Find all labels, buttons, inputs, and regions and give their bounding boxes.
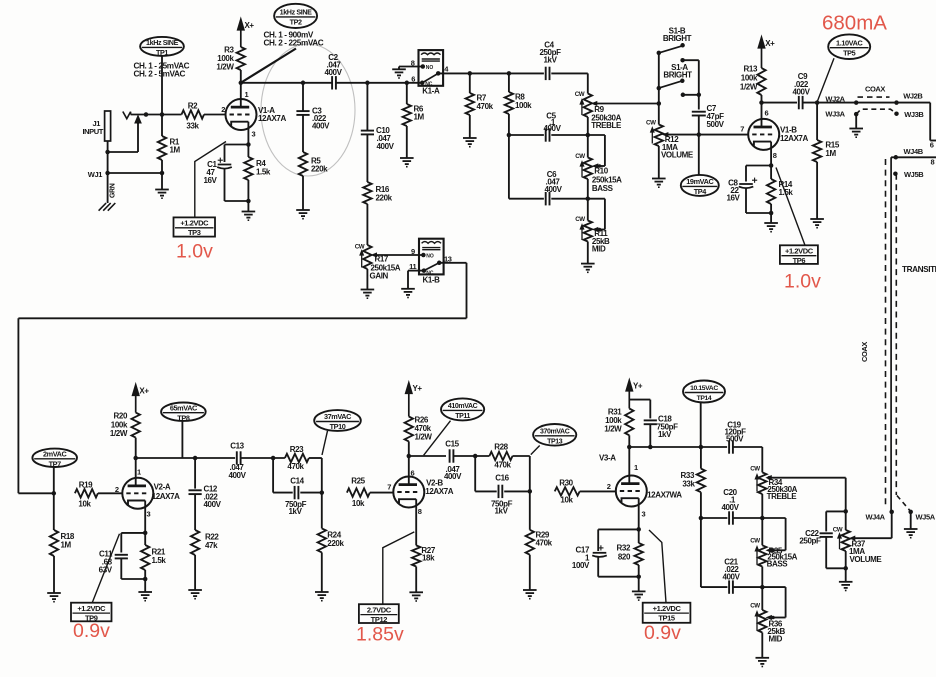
svg-text:220k: 220k: [311, 165, 328, 174]
svg-text:400V: 400V: [543, 124, 561, 133]
svg-text:R2: R2: [188, 102, 198, 111]
svg-text:NO: NO: [426, 254, 434, 260]
wire R9 bottom: [587, 117, 589, 135]
svg-text:MID: MID: [769, 634, 783, 643]
wire R10 top rail: [588, 134, 605, 136]
wire K1-B pin13 long loop: [439, 262, 466, 264]
resistor R5: [299, 152, 307, 176]
wire C20 to R34 bottom: [733, 517, 762, 519]
capacitor C5: [509, 134, 544, 136]
wire R17 wiper to K1-B: [375, 254, 424, 256]
potentiometer R35 BASS: [761, 518, 763, 545]
node WJ1 left: [105, 171, 110, 176]
wire V2-A plate lead: [135, 458, 137, 486]
testpoint TP3: [174, 217, 216, 236]
wire R18 to ground: [53, 556, 55, 593]
capacitor C20: [728, 511, 730, 524]
resistor R2: [182, 110, 205, 118]
wire C8 bottom: [745, 188, 747, 213]
svg-text:CW: CW: [750, 465, 760, 472]
node V1-A cathode: [246, 142, 251, 147]
wire TP14 pointer: [700, 403, 702, 447]
wire R10 wiper: [597, 165, 605, 167]
wire coax shield dashed mid: [856, 109, 896, 114]
wire R11 wiper: [597, 229, 605, 231]
node on WJ4B wire: [894, 155, 899, 160]
svg-text:R25: R25: [351, 477, 365, 486]
svg-text:1: 1: [634, 463, 638, 472]
wire to chassis: [107, 173, 109, 203]
svg-text:2: 2: [607, 482, 611, 491]
node: [143, 577, 148, 582]
wire TP9 pointer: [92, 534, 119, 603]
svg-text:3: 3: [252, 130, 256, 139]
resistor R18: [53, 493, 55, 530]
svg-text:WJ5B: WJ5B: [904, 170, 924, 179]
wire C6 to R10 bottom: [551, 198, 588, 200]
wire: [161, 160, 163, 190]
svg-text:WJ4B: WJ4B: [904, 147, 924, 156]
wire S1-A top to C7 rail: [683, 59, 699, 61]
wire R37 wiper: [854, 537, 892, 539]
node K1-B common: [437, 261, 442, 266]
node: [769, 211, 774, 216]
svg-text:1/2W: 1/2W: [740, 83, 758, 92]
wire R12 to ground: [658, 146, 660, 179]
svg-text:1: 1: [137, 468, 141, 477]
svg-text:1M: 1M: [825, 149, 836, 158]
node R8 tap: [507, 71, 512, 76]
resistor R33: [700, 447, 702, 469]
svg-text:47k: 47k: [205, 541, 218, 550]
svg-text:400V: 400V: [444, 472, 462, 481]
wire C15 to node: [453, 455, 489, 457]
wire TP13 pointer: [531, 446, 540, 455]
wire plate bus V2-B: [409, 455, 446, 457]
wire R36 top rail: [762, 586, 785, 588]
resistor R20: [132, 413, 140, 438]
capacitor C4: [545, 67, 547, 80]
wire R11 to ground: [587, 242, 589, 264]
svg-text:X+: X+: [245, 21, 255, 30]
arrow shorting contact: [135, 116, 141, 123]
wire C9 to WJ2A: [803, 102, 857, 104]
svg-text:BASS: BASS: [767, 559, 789, 568]
svg-text:250k15A: 250k15A: [592, 175, 622, 184]
svg-text:R13: R13: [744, 65, 758, 74]
testpoint TP5: [828, 34, 870, 59]
resistor R13: [757, 68, 765, 95]
wire C3 to R5: [302, 115, 304, 152]
capacitor C12: [189, 489, 202, 491]
node WJ5A: [908, 510, 913, 515]
testpoint TP12: [359, 604, 399, 623]
wire C13 to node: [241, 457, 285, 459]
svg-text:TP6: TP6: [793, 256, 806, 265]
node R15 tap: [815, 100, 820, 105]
wire R24 to ground: [321, 552, 323, 592]
node WJ3B: [894, 111, 899, 116]
svg-text:CW: CW: [575, 91, 585, 98]
node: [246, 199, 251, 204]
node C14/R23 left: [271, 456, 276, 461]
svg-text:CW: CW: [646, 119, 656, 126]
svg-text:NC: NC: [425, 81, 433, 87]
wire: [108, 151, 138, 153]
triode V1-A: [226, 99, 257, 130]
capacitor C17: [593, 552, 607, 554]
svg-text:V3-A: V3-A: [599, 453, 616, 462]
svg-text:Y+: Y+: [633, 382, 643, 391]
potentiometer R9 TREBLE: [584, 94, 592, 118]
wire C19 to R34: [733, 446, 762, 448]
svg-text:TP10: TP10: [330, 422, 346, 431]
svg-text:1kV: 1kV: [288, 507, 302, 516]
wire TP5 pointer: [818, 58, 835, 101]
testpoint TP15: [643, 603, 691, 623]
node S1-A top contact: [680, 58, 685, 63]
ground R21: [138, 591, 152, 593]
svg-text:VOLUME: VOLUME: [661, 150, 694, 159]
potentiometer R11 MID: [587, 199, 589, 221]
wire C12 branch: [194, 458, 196, 489]
wire V3-A cathode lead: [638, 498, 640, 529]
svg-text:TP2: TP2: [290, 18, 302, 27]
testpoint TP1: [140, 37, 184, 56]
potentiometer R17 GAIN: [363, 245, 371, 269]
power X+ V1-B: [758, 37, 765, 49]
resistor R28: [489, 452, 512, 460]
svg-text:C16: C16: [495, 473, 509, 482]
wire TP2 pointer: [242, 49, 296, 83]
capacitor C13: [236, 451, 238, 464]
svg-text:6: 6: [930, 141, 934, 150]
svg-text:TP7: TP7: [49, 460, 62, 469]
jack tip contact: [123, 112, 131, 119]
wire TP8 pointer: [181, 421, 183, 458]
svg-text:1/2W: 1/2W: [415, 432, 433, 441]
svg-text:VOLUME: VOLUME: [850, 555, 883, 564]
wire coax shield dashed top: [858, 96, 890, 98]
node WJ1 right: [160, 171, 165, 176]
svg-text:65mVAC: 65mVAC: [170, 403, 198, 412]
node C7 rail junction: [697, 93, 702, 98]
wire V1-B plate lead: [761, 103, 763, 128]
node V1-A plate: [239, 81, 244, 86]
node K1-B NC contact: [422, 268, 427, 273]
wire C16 to node: [504, 490, 530, 492]
wire R4 bottom: [247, 180, 249, 212]
svg-text:370mVAC: 370mVAC: [540, 428, 570, 435]
wire R26 to plate node: [408, 441, 410, 456]
wire R8 to C5 node: [508, 114, 510, 135]
wire S1-A lower to rail: [683, 94, 699, 96]
wire C4 to R9: [551, 72, 588, 74]
svg-text:MID: MID: [592, 245, 606, 254]
node WJ5B: [893, 171, 898, 176]
wire V2-B plate lead: [408, 456, 410, 485]
svg-text:680mA: 680mA: [822, 12, 887, 35]
triode V2-A: [122, 478, 153, 509]
wire R7 to ground: [469, 115, 471, 138]
wire R33 to C20 row: [700, 492, 702, 518]
svg-text:400V: 400V: [204, 500, 222, 509]
capacitor C9: [798, 96, 800, 109]
node WJ2A: [854, 100, 859, 105]
wire R31 to plate node: [628, 435, 630, 447]
wire plate bus V3-A: [629, 446, 727, 448]
resistor R19: [75, 489, 98, 497]
node K1-A NC contact: [420, 81, 425, 86]
wire R34 wiper out: [770, 477, 846, 479]
resistor R7: [469, 73, 471, 93]
svg-text:3: 3: [642, 510, 646, 519]
resistor R24: [321, 493, 323, 529]
svg-text:1kV: 1kV: [658, 430, 672, 439]
svg-text:BRIGHT: BRIGHT: [663, 71, 692, 80]
wire cathode to C8: [746, 165, 771, 167]
svg-text:1.0v: 1.0v: [784, 271, 821, 293]
wire to ground: [845, 568, 847, 582]
wire TP12 pointer: [383, 532, 415, 604]
wire cathode to C1: [225, 144, 249, 146]
svg-text:10k: 10k: [560, 495, 573, 504]
wire V1-B cathode lead: [770, 142, 772, 166]
resistor R25: [347, 488, 370, 496]
testpoint TP14: [683, 381, 725, 403]
ground R17: [361, 289, 375, 291]
svg-text:220k: 220k: [376, 194, 393, 203]
node R7 tap: [468, 71, 473, 76]
node R9/C5/R10: [586, 133, 591, 138]
svg-text:+1.2VDC: +1.2VDC: [785, 247, 814, 256]
wire WJ3A ground stem: [855, 114, 857, 128]
capacitor C22: [820, 532, 833, 534]
node WJ2B: [894, 100, 899, 105]
resistor R14: [770, 166, 772, 180]
decorative scan artifact circle (not labeled component): [261, 44, 355, 176]
wire C17 bottom: [597, 557, 599, 577]
wire R30 to V3-A grid: [580, 490, 616, 492]
node TP1/R1 tap: [160, 112, 165, 117]
svg-text:1.5k: 1.5k: [256, 168, 271, 177]
svg-text:K1-B: K1-B: [422, 276, 440, 285]
svg-text:100k: 100k: [741, 74, 758, 83]
svg-text:TP14: TP14: [697, 395, 712, 402]
svg-text:18k: 18k: [422, 554, 435, 563]
ground R14: [764, 222, 778, 224]
node WJ3A: [854, 112, 859, 117]
triode V3-A: [616, 476, 647, 507]
svg-text:Y+: Y+: [413, 384, 423, 393]
wire C11 bottom: [120, 559, 122, 579]
svg-text:500V: 500V: [726, 435, 744, 444]
wire R32 bottom: [638, 565, 640, 591]
wire coax shield dashed right: [895, 174, 897, 495]
ground R36: [756, 657, 770, 659]
wire WJ1: [108, 172, 162, 174]
svg-text:9: 9: [411, 247, 415, 256]
wire cathode to C17: [598, 528, 639, 530]
wire R22 to ground: [194, 555, 196, 590]
capacitor C19: [728, 440, 730, 453]
ground R18: [47, 592, 61, 594]
node R37/C22 bottom: [843, 566, 848, 571]
svg-text:250pF: 250pF: [799, 536, 821, 545]
svg-text:V2-A: V2-A: [154, 482, 171, 491]
svg-text:R23: R23: [290, 445, 304, 454]
wire K1-B NC to ground: [408, 270, 424, 272]
svg-text:X+: X+: [139, 387, 149, 396]
svg-text:6: 6: [765, 109, 769, 118]
capacitor C1: [218, 164, 232, 166]
svg-text:16V: 16V: [726, 194, 740, 203]
svg-text:WJ2A: WJ2A: [825, 94, 845, 103]
svg-text:1: 1: [245, 90, 249, 99]
ground R27: [409, 591, 423, 593]
svg-text:400V: 400V: [228, 471, 246, 480]
capacitor C6: [545, 192, 547, 205]
svg-text:12AX7A: 12AX7A: [780, 134, 808, 143]
svg-text:10k: 10k: [78, 500, 91, 509]
wire C14 to node: [300, 492, 322, 494]
svg-text:8: 8: [931, 158, 935, 167]
switch S1-A BRIGHT: [659, 81, 683, 88]
node V2-A plate: [133, 456, 138, 461]
svg-text:K1-A: K1-A: [422, 87, 440, 96]
ground R22: [188, 589, 202, 591]
ground R37: [839, 581, 853, 583]
testpoint TP6: [780, 245, 818, 264]
potentiometer R10 BASS: [587, 135, 589, 158]
wire input to R2: [131, 114, 182, 116]
svg-text:BRIGHT: BRIGHT: [663, 34, 692, 43]
svg-text:2mVAC: 2mVAC: [43, 449, 68, 458]
wire R15 to ground: [816, 162, 818, 219]
node C7/wiper: [697, 132, 702, 137]
ground R6: [400, 157, 414, 159]
svg-text:1kV: 1kV: [543, 56, 557, 65]
resistor R26: [405, 417, 413, 442]
wire R21 bottom: [144, 570, 146, 592]
svg-text:1/2W: 1/2W: [216, 63, 234, 72]
node S1-B pivot: [657, 51, 662, 56]
testpoint TP8: [161, 403, 206, 421]
svg-text:TP1: TP1: [156, 48, 168, 57]
capacitor C10: [361, 130, 374, 132]
ground R5: [296, 209, 310, 211]
svg-text:8: 8: [773, 151, 777, 160]
ground WJ5A: [904, 528, 918, 530]
relay K1-B: [419, 239, 444, 275]
svg-text:C15: C15: [445, 440, 459, 449]
switch arm K1-B: [424, 263, 439, 271]
node C22/R37 top: [843, 509, 848, 514]
node C5 row: [507, 133, 512, 138]
wire plate bus row1: [241, 82, 332, 84]
switch S1-B BRIGHT: [659, 46, 682, 53]
node V3 cathode junction: [636, 527, 641, 532]
power Y+ V2-B: [405, 382, 412, 394]
wire C3 branch: [302, 83, 304, 111]
svg-text:7: 7: [387, 482, 391, 491]
svg-text:410mVAC: 410mVAC: [448, 403, 478, 410]
node WJ4A: [889, 510, 894, 515]
testpoint TP2: [274, 4, 317, 28]
svg-text:TRANSITI: TRANSITI: [902, 265, 936, 274]
potentiometer R12 VOLUME: [658, 104, 660, 125]
svg-text:TP4: TP4: [694, 187, 708, 196]
svg-text:TREBLE: TREBLE: [767, 492, 798, 501]
triode V1-B: [748, 119, 779, 150]
wire R12 wiper to V1-B grid: [666, 134, 749, 136]
ground R1: [155, 189, 169, 191]
svg-text:6: 6: [411, 469, 415, 478]
svg-text:400V: 400V: [721, 503, 739, 512]
testpoint TP10: [314, 410, 361, 431]
wire coax center vertical: [890, 157, 892, 512]
svg-text:CH. 2 - 5mVAC: CH. 2 - 5mVAC: [134, 69, 186, 78]
wire C18 to bus: [649, 424, 651, 447]
svg-text:CH. 2 - 225mVAC: CH. 2 - 225mVAC: [264, 38, 324, 47]
svg-text:1kV: 1kV: [494, 507, 508, 516]
ground K1-A pin8: [392, 68, 406, 70]
svg-text:400V: 400V: [722, 572, 740, 581]
resistor R3: [237, 47, 245, 70]
resistor R32: [638, 529, 640, 543]
potentiometer R37 VOLUME: [845, 511, 847, 530]
svg-text:CW: CW: [575, 153, 585, 160]
resistor R4: [247, 145, 249, 158]
wire C18 branch top: [629, 399, 650, 401]
svg-text:37mVAC: 37mVAC: [324, 412, 352, 421]
ground chassis J1: [99, 203, 107, 211]
wire R36 wiper: [771, 617, 786, 619]
svg-text:CW: CW: [750, 602, 760, 609]
resistor R23: [285, 454, 309, 462]
wire WJ2A to WJ2B: [856, 102, 896, 104]
svg-text:1.10VAC: 1.10VAC: [836, 38, 863, 47]
node TP7/R18/R19: [52, 491, 57, 496]
svg-text:33k: 33k: [682, 480, 695, 489]
svg-text:WJ3A: WJ3A: [825, 110, 845, 119]
svg-text:TP13: TP13: [547, 439, 563, 446]
svg-text:R28: R28: [494, 443, 508, 452]
svg-text:WJ5A: WJ5A: [916, 513, 936, 522]
wire R13 to plate node: [761, 95, 763, 103]
svg-text:820: 820: [618, 552, 631, 561]
wire R35 bottom: [761, 567, 763, 588]
wire R10 bottom: [587, 179, 589, 199]
svg-text:0.9v: 0.9v: [73, 620, 110, 642]
svg-text:COAX: COAX: [860, 342, 869, 362]
resistor R1: [161, 115, 163, 137]
svg-text:12AX7WA: 12AX7WA: [647, 491, 682, 500]
ground K1-B pin11: [401, 288, 415, 290]
wire K1-A NO to ground: [399, 66, 423, 68]
wire R36 to ground: [761, 633, 763, 658]
resistor R30: [555, 487, 580, 495]
wire R2 to V1-A grid: [204, 114, 226, 116]
ground R4: [242, 211, 256, 213]
node C18 bottom: [648, 445, 653, 450]
svg-text:470k: 470k: [494, 460, 511, 469]
node K1-A NO contact: [421, 64, 426, 69]
potentiometer R36 MID: [761, 587, 763, 610]
capacitor C7: [692, 111, 706, 113]
svg-text:11: 11: [409, 262, 416, 271]
ground R24: [315, 591, 329, 593]
